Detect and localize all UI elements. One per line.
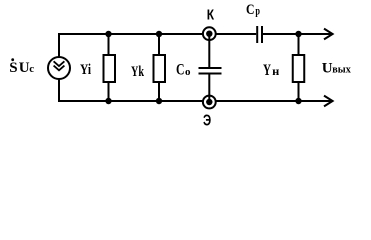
svg-text:U: U [19,60,30,76]
wire Yn bottom [298,82,300,101]
terminal K dot [206,31,212,37]
junction dot top Yk [156,31,162,37]
label S dot [11,58,14,61]
wire top rail right segment [263,33,331,35]
terminal K circle [203,27,216,40]
capacitor Co bottom plate [199,73,222,75]
resistor Yn [293,55,305,82]
svg-text:p: p [255,3,260,17]
svg-text:S: S [9,60,17,76]
wire Yi bottom [108,82,110,101]
svg-text:U: U [322,60,333,76]
junction dot bottom Yk [156,98,162,104]
output arrow bottom [324,96,333,107]
svg-text:o: o [185,66,191,78]
svg-text:C: C [246,2,255,18]
svg-text:c: c [29,63,34,75]
capacitor Cp right plate [261,26,263,43]
wire left vertical upper [58,33,60,58]
capacitor Cp left plate [256,26,258,43]
wire Yk top [158,34,160,55]
wire left vertical lower [58,79,60,103]
junction dot top Yi [105,31,111,37]
svg-text:Y: Y [263,62,271,79]
wire bottom rail [58,100,331,102]
resistor Yi [104,55,116,82]
junction dot top Yn [295,31,301,37]
junction dot bottom Yn [295,98,301,104]
current source chevron 2 [54,66,65,71]
svg-text:C: C [176,62,185,79]
wire Co to E [208,74,210,102]
svg-text:вых: вых [332,63,351,75]
resistor Yk [154,55,166,82]
svg-text:н: н [272,64,279,78]
svg-text:Yk: Yk [131,64,144,80]
svg-text:К: К [207,7,215,24]
terminal E dot [206,99,212,105]
wire Yn top [298,34,300,55]
wire Yk bottom [158,82,160,101]
svg-text:Э: Э [203,113,211,130]
svg-text:Yi: Yi [80,62,91,78]
terminal E circle [203,96,216,109]
wire top rail left segment [58,33,256,35]
wire Yi top [108,34,110,55]
output arrow top [324,29,333,40]
current source circle [48,57,70,79]
junction dot bottom Yi [105,98,111,104]
capacitor Co top plate [199,67,222,69]
current source chevron 1 [54,61,65,66]
wire K to Co [208,34,210,67]
